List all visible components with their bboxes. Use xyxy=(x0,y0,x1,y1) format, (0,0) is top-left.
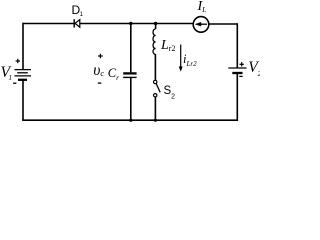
wire left vertical lower xyxy=(22,80,24,120)
wire left vertical xyxy=(22,23,24,70)
label plus V1 xyxy=(16,59,20,63)
wire inductor-to-switch xyxy=(154,54,156,80)
label minus V1 xyxy=(13,82,16,84)
wire switch-to-bottom xyxy=(154,97,156,120)
wire capacitor branch lower xyxy=(130,78,132,120)
wire top xyxy=(23,23,193,25)
current source IL xyxy=(193,17,209,33)
wire right vertical upper xyxy=(236,23,238,68)
diode D1 xyxy=(74,19,80,27)
switch S2 xyxy=(154,80,161,97)
label plus vc xyxy=(98,54,103,58)
junction node top-capacitor xyxy=(129,22,132,25)
current arrow iLr2 xyxy=(179,45,182,72)
label plus V2 xyxy=(240,62,244,66)
capacitor Cr plates xyxy=(123,73,136,77)
wire right vertical lower xyxy=(236,73,238,121)
label Cr xyxy=(108,66,119,82)
label iLr2 xyxy=(183,52,197,68)
label D1 xyxy=(72,3,84,18)
label V2 xyxy=(248,59,261,78)
label vc xyxy=(93,62,104,80)
label minus vc xyxy=(98,82,102,84)
label minus V2 xyxy=(239,75,242,77)
junction node top-inductor xyxy=(154,22,157,25)
wire capacitor branch upper xyxy=(130,24,132,73)
battery V1 xyxy=(15,70,32,80)
wire top-right segment xyxy=(209,23,238,25)
battery V2 xyxy=(228,68,246,73)
wire inductor branch stub xyxy=(155,24,157,30)
label V1 xyxy=(1,64,12,82)
junction node bottom-switch xyxy=(154,119,157,122)
inductor Lr2 coil xyxy=(153,29,155,54)
junction node bottom-capacitor xyxy=(129,119,132,122)
wire bottom xyxy=(22,119,238,121)
label IL xyxy=(198,0,207,15)
label S2 xyxy=(164,85,176,101)
label Lr2 xyxy=(161,38,175,54)
